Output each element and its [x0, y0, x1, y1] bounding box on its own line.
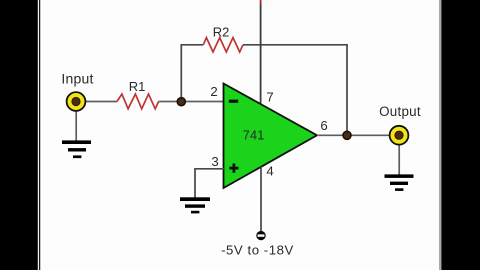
input jack J1	[67, 92, 86, 111]
wire pin 6 to output jack	[317, 134, 391, 136]
ground output	[385, 174, 414, 191]
svg-text:7: 7	[266, 90, 273, 105]
wire R1 to junction to op-amp pin 2	[159, 101, 224, 103]
svg-text:3: 3	[211, 154, 218, 169]
output jack J2	[390, 126, 409, 145]
svg-text:741: 741	[243, 128, 265, 143]
wire R2 to feedback right corner	[243, 44, 348, 46]
svg-text:-5V to -18V: -5V to -18V	[221, 243, 294, 258]
wire output jack to ground	[398, 144, 400, 175]
schematic right border	[439, 0, 441, 270]
wire feedback right vertical	[346, 44, 348, 135]
svg-text:4: 4	[266, 164, 273, 179]
wire feedback left vertical	[180, 45, 182, 102]
right black pillar	[441, 0, 480, 270]
wire pin 4 to negative supply	[260, 166, 262, 231]
schematic left border	[39, 0, 41, 270]
ground pin 3	[180, 197, 210, 213]
svg-text:R2: R2	[213, 25, 230, 40]
junction node input	[177, 98, 185, 106]
svg-text:Output: Output	[379, 104, 421, 119]
resistor R1	[117, 94, 159, 109]
ground input	[62, 140, 91, 158]
svg-text:Input: Input	[61, 71, 93, 87]
wire pin 3 horizontal	[194, 168, 224, 170]
positive supply line to pin 7	[260, 4, 262, 105]
left black pillar	[0, 0, 38, 270]
wire feedback top left to R2	[181, 44, 204, 46]
wire pin 3 vertical to ground	[194, 169, 196, 198]
negative supply terminal	[256, 231, 265, 240]
op-amp U1 741	[224, 84, 318, 189]
svg-text:2: 2	[210, 84, 217, 99]
wire input jack to ground	[75, 110, 77, 141]
svg-text:6: 6	[320, 118, 327, 133]
positive supply red tip	[260, 0, 262, 5]
resistor R2	[203, 38, 243, 52]
wire input jack to R1	[84, 101, 117, 103]
junction node output	[343, 131, 351, 139]
svg-text:R1: R1	[129, 79, 146, 94]
